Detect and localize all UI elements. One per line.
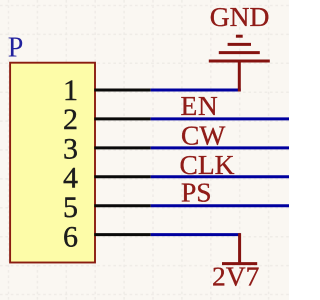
svg-text:2: 2 <box>63 103 78 136</box>
svg-text:GND: GND <box>210 1 270 32</box>
svg-text:2V7: 2V7 <box>212 261 259 292</box>
svg-text:5: 5 <box>63 191 78 224</box>
svg-text:CW: CW <box>181 120 225 151</box>
svg-text:P: P <box>8 33 24 64</box>
svg-text:EN: EN <box>181 90 219 121</box>
svg-text:3: 3 <box>63 133 78 166</box>
svg-text:CLK: CLK <box>180 149 235 180</box>
svg-text:6: 6 <box>63 220 78 253</box>
svg-text:PS: PS <box>181 176 212 207</box>
svg-text:4: 4 <box>63 162 78 195</box>
